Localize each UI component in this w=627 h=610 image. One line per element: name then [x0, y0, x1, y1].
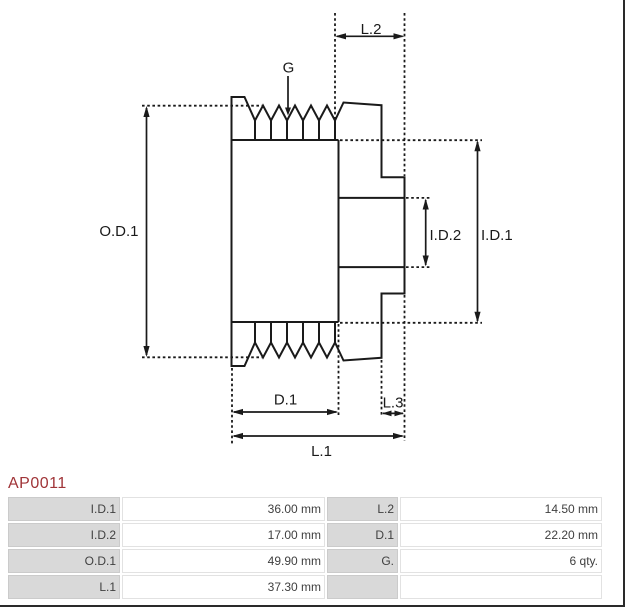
bore line lower I.D.2 [339, 266, 405, 268]
data table [6, 495, 604, 601]
dimension L.3 [383, 412, 403, 414]
pulley outer profile [232, 97, 405, 366]
extension line I.D.1 bottom [340, 322, 482, 324]
rib base line top [232, 139, 339, 141]
extension line D.1 right [338, 324, 340, 417]
extension line I.D.1 top [340, 139, 482, 141]
extension line I.D.2 top [406, 197, 432, 199]
dimension L.1 [234, 435, 403, 437]
svg-text:L.3: L.3 [383, 395, 404, 412]
extension line O.D.1 top [142, 105, 262, 107]
body right edge [338, 140, 340, 322]
dimension O.D.1 [146, 108, 148, 355]
extension line L.3 left [381, 360, 383, 417]
extension line D.1 left / L.1 left [231, 368, 233, 444]
part number title [8, 475, 67, 493]
extension line O.D.1 bottom [142, 356, 262, 358]
svg-text:G: G [283, 60, 295, 77]
svg-text:L.2: L.2 [361, 21, 382, 38]
svg-text:I.D.1: I.D.1 [481, 227, 513, 244]
dimension I.D.1 [477, 142, 479, 321]
extension line I.D.2 bottom [406, 266, 432, 268]
dimension I.D.2 [425, 200, 427, 265]
dimension L.2 [337, 35, 403, 37]
svg-text:O.D.1: O.D.1 [99, 223, 138, 240]
leader arrow G [287, 76, 289, 109]
groove stems bottom [255, 322, 335, 343]
dimension D.1 [234, 411, 337, 413]
svg-text:D.1: D.1 [274, 392, 297, 409]
rib base line bottom [232, 321, 339, 323]
extension line L.2 left [334, 13, 336, 119]
extension line L.2 right / L.1 right [404, 13, 406, 441]
svg-text:L.1: L.1 [311, 443, 332, 460]
groove stems top [255, 121, 335, 141]
svg-text:I.D.2: I.D.2 [430, 227, 462, 244]
bore line upper I.D.2 [339, 197, 405, 199]
